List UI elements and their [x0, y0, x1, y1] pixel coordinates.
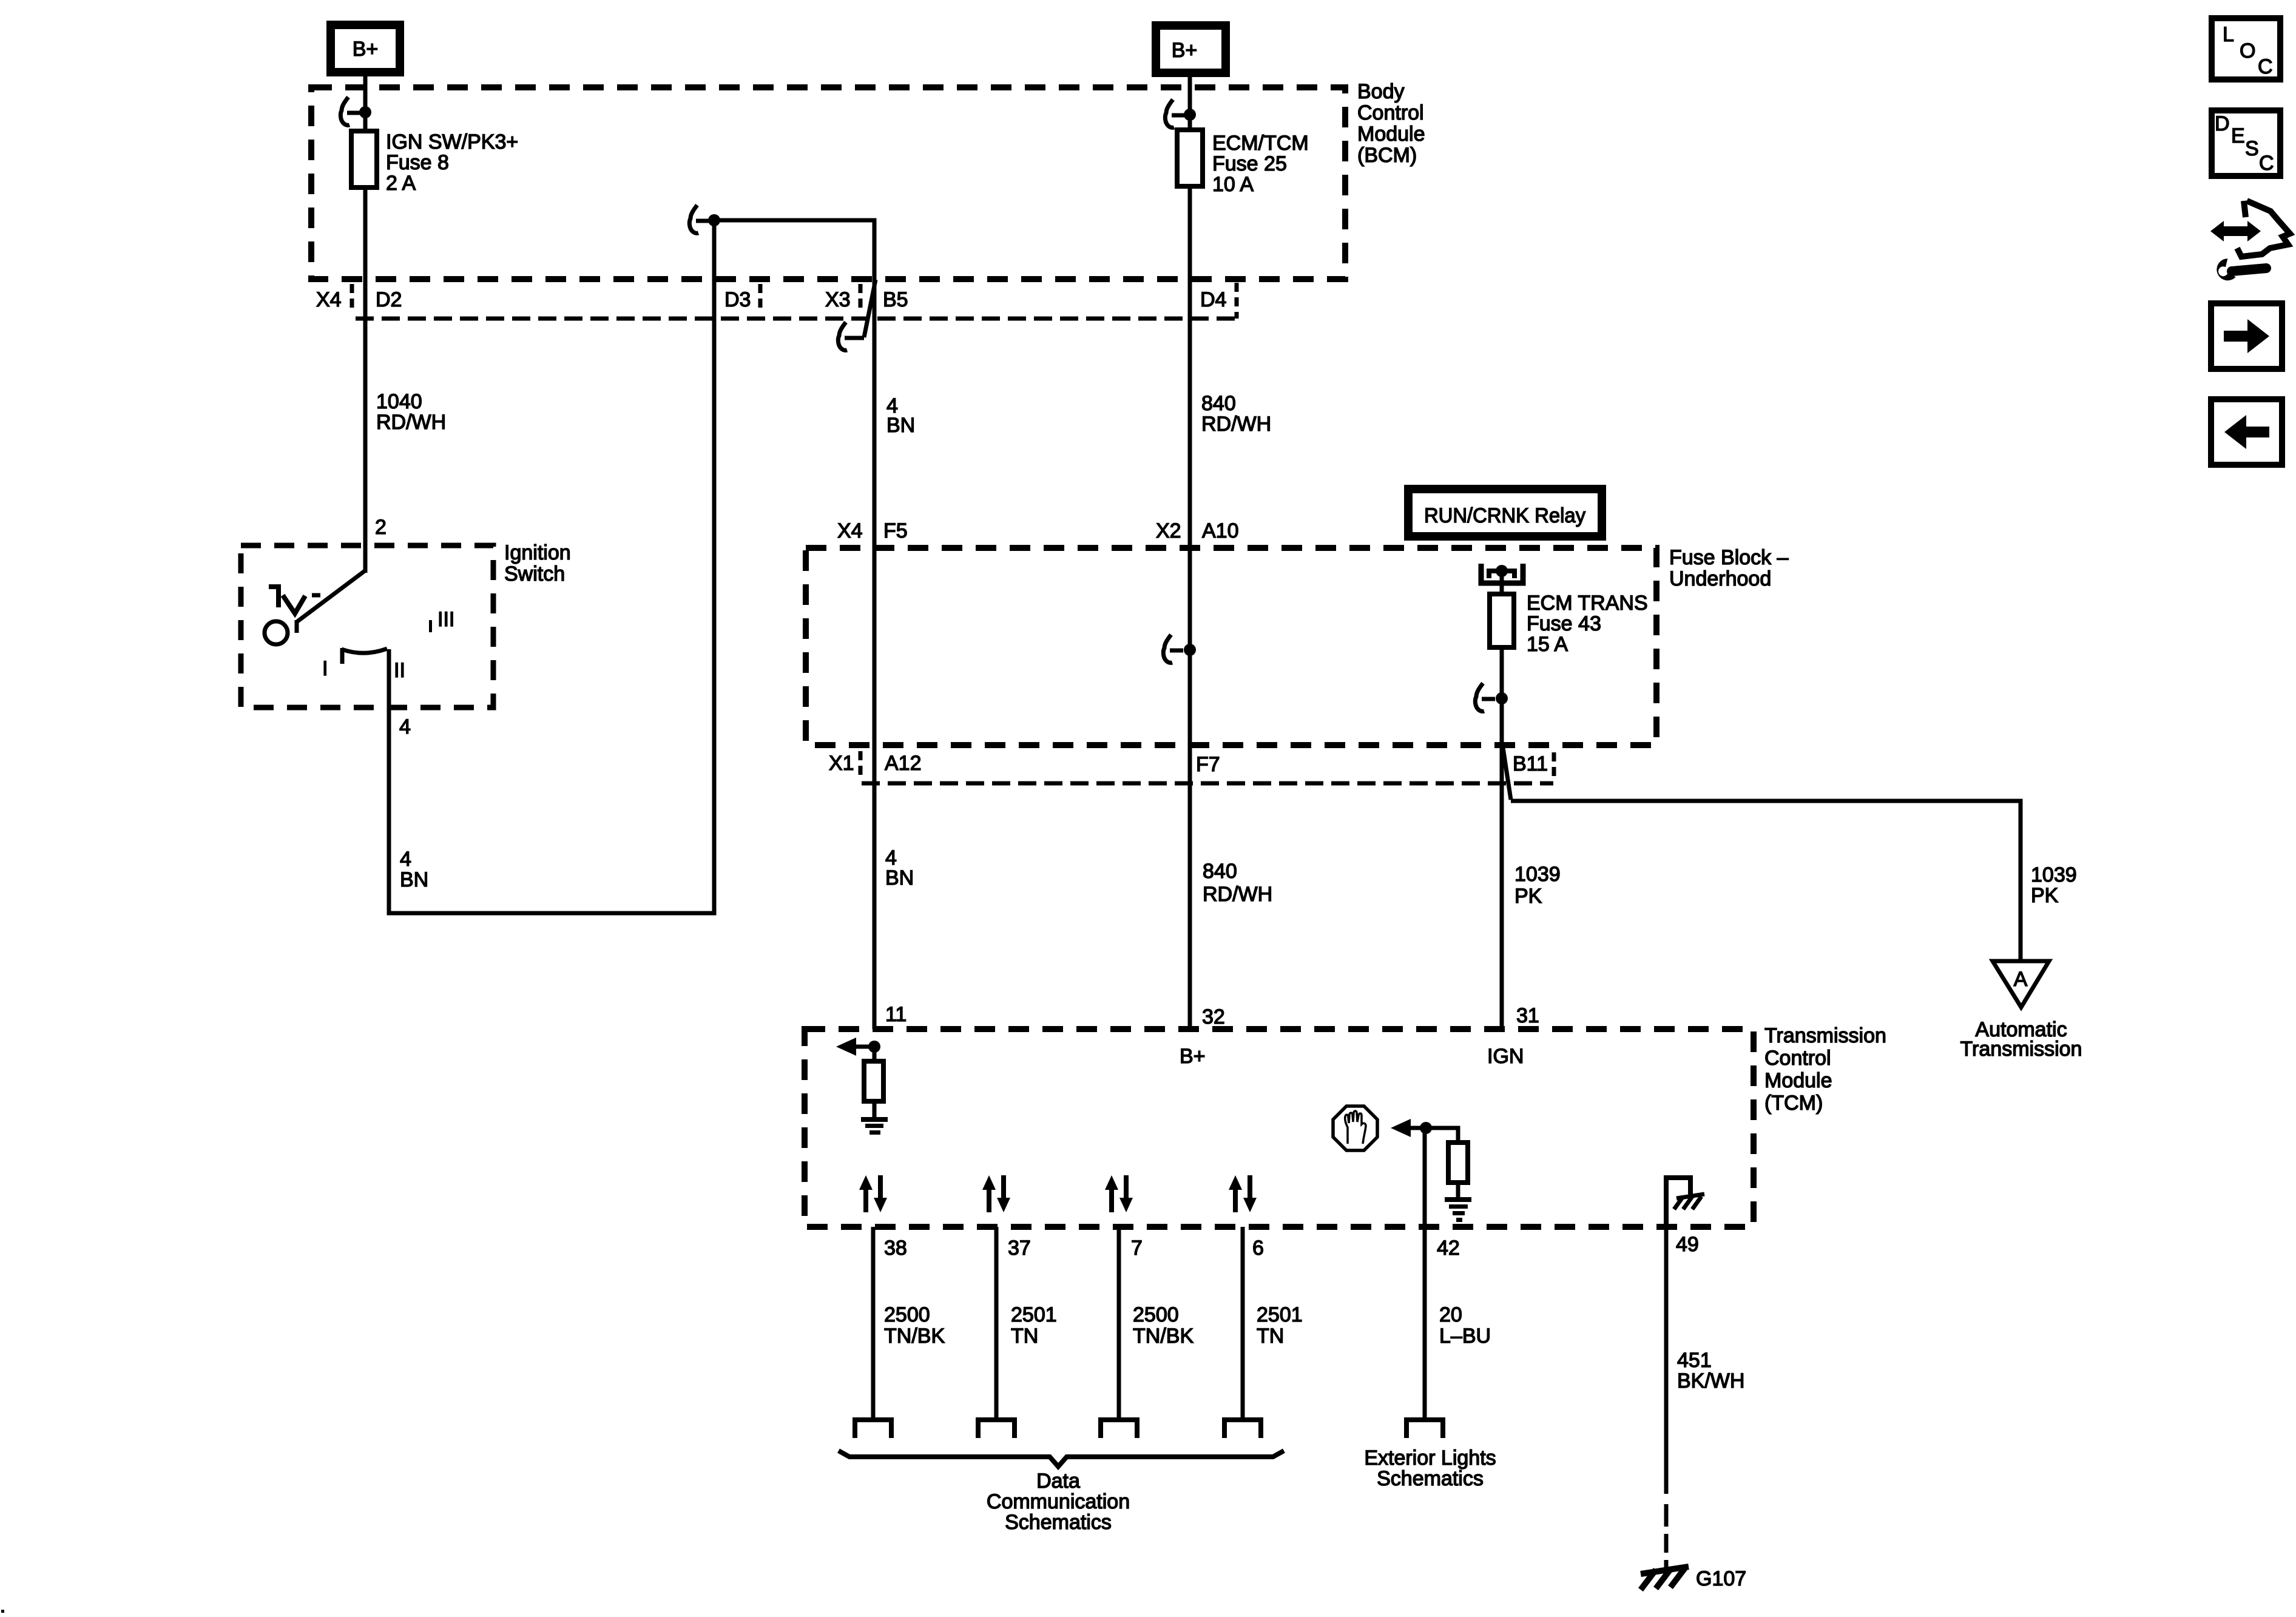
svg-text:F7: F7	[1196, 753, 1220, 776]
svg-text:7: 7	[1131, 1237, 1143, 1260]
svg-text:Ignition: Ignition	[504, 541, 571, 564]
svg-text:15 A: 15 A	[1527, 633, 1568, 656]
svg-text:BK/WH: BK/WH	[1677, 1369, 1744, 1393]
connector cup pin 37	[978, 1420, 1015, 1438]
wire label 2500 TN/BK (pin 38)	[884, 1303, 945, 1348]
fuse F8	[351, 131, 377, 187]
svg-text:L: L	[2223, 23, 2234, 46]
svg-text:Transmission: Transmission	[1764, 1024, 1886, 1047]
svg-text:6: 6	[1252, 1237, 1264, 1260]
ground symbol (TCM pin 42)	[1445, 1197, 1471, 1222]
label fuse 25	[1212, 132, 1309, 196]
svg-text:2501: 2501	[1257, 1303, 1303, 1326]
connector cup pin 38	[855, 1420, 891, 1438]
wire pin 11 to resistor	[873, 1047, 877, 1061]
wire label 20 L-BU	[1439, 1303, 1491, 1348]
svg-text:32: 32	[1202, 1005, 1225, 1028]
connector separator X3	[859, 284, 863, 313]
label Data Communication Schematics	[987, 1470, 1130, 1534]
svg-text:ECM TRANS: ECM TRANS	[1527, 592, 1648, 615]
svg-text:IGN: IGN	[1487, 1045, 1524, 1068]
terminal hook at A10	[1163, 635, 1183, 663]
serial data arrows pin 37	[982, 1175, 1010, 1212]
svg-text:TN/BK: TN/BK	[884, 1325, 945, 1348]
svg-text:Communication: Communication	[987, 1490, 1130, 1513]
wire pin 42 node to resistor	[1426, 1128, 1458, 1143]
connector separator D3	[758, 284, 763, 313]
svg-text:X4: X4	[837, 519, 863, 542]
svg-text:A: A	[2014, 968, 2028, 991]
svg-text:31: 31	[1516, 1004, 1539, 1027]
svg-text:D: D	[2215, 112, 2230, 135]
svg-text:451: 451	[1677, 1349, 1712, 1372]
svg-text:1039: 1039	[1514, 863, 1561, 886]
svg-text:840: 840	[1203, 860, 1237, 883]
svg-text:38: 38	[884, 1237, 907, 1260]
sidebar icon DESC	[2212, 110, 2280, 176]
svg-text:(TCM): (TCM)	[1764, 1092, 1823, 1115]
svg-text:X1: X1	[829, 752, 854, 775]
ignition switch blade	[297, 571, 365, 633]
svg-text:X3: X3	[825, 288, 851, 311]
svg-text:1039: 1039	[2031, 863, 2077, 886]
svg-text:Module: Module	[1764, 1069, 1832, 1092]
svg-text:A10: A10	[1202, 519, 1239, 542]
module box Ignition Switch	[241, 545, 493, 707]
module box BCM (Body Control Module)	[311, 87, 1345, 279]
wire resistor to ground	[873, 1101, 877, 1118]
wire B+ to Fuse 25	[1188, 73, 1192, 130]
fuse F43	[1490, 594, 1514, 647]
TCM pin 11 internal arrow	[836, 1038, 874, 1056]
wire label 4 BN (upper)	[886, 394, 915, 437]
svg-text:Data: Data	[1036, 1470, 1080, 1493]
svg-text:Fuse 43: Fuse 43	[1527, 612, 1601, 635]
svg-text:X2: X2	[1156, 519, 1181, 542]
wire TCM pin 42 (20 L-BU)	[1423, 1128, 1427, 1420]
svg-text:Fuse Block –: Fuse Block –	[1669, 546, 1789, 569]
junction node below fuse 43	[1496, 692, 1508, 704]
in-line connector jog at B5	[838, 280, 876, 350]
svg-text:A12: A12	[885, 752, 922, 775]
wire label 2501 TN (pin 37)	[1011, 1303, 1057, 1348]
connector separator X4/D2	[350, 284, 354, 313]
svg-text:I: I	[322, 657, 328, 680]
serial data arrows pin 38	[859, 1175, 887, 1212]
wire TCM pin 6 (2501 TN)	[1241, 1227, 1245, 1420]
svg-text:C: C	[2258, 55, 2273, 78]
svg-text:IGN SW/PK3+: IGN SW/PK3+	[386, 130, 518, 154]
junction node D3 branch	[708, 214, 720, 226]
svg-text:D3: D3	[724, 288, 751, 311]
wire label 1040 RD/WH	[376, 390, 446, 434]
power symbol B+ (left)	[331, 25, 400, 72]
svg-text:D2: D2	[376, 288, 402, 311]
svg-text:Fuse 8: Fuse 8	[386, 151, 449, 174]
svg-text:Schematics: Schematics	[1005, 1511, 1112, 1534]
wire label 840 RD/WH (upper)	[1201, 392, 1271, 436]
relay callout box RUN/CRNK Relay	[1408, 489, 1602, 536]
sidebar icon LOC	[2212, 18, 2280, 79]
label Exterior Lights Schematics	[1364, 1447, 1496, 1490]
wire TCM pin 38 (2500 TN/BK)	[871, 1227, 876, 1420]
connector separator B11	[1552, 752, 1556, 780]
svg-text:ECM/TCM: ECM/TCM	[1212, 132, 1309, 155]
junction node pin 42	[1420, 1122, 1432, 1134]
wire label 1039 PK (right)	[2031, 863, 2077, 907]
ignition switch output arc	[342, 648, 387, 664]
svg-text:B+: B+	[353, 38, 379, 61]
relay contact cup	[1481, 564, 1523, 583]
wire label 2501 TN (pin 6)	[1257, 1303, 1303, 1348]
wire branch D3 to B5	[714, 220, 874, 1029]
fuse F25	[1177, 130, 1203, 186]
position mark III	[429, 608, 454, 632]
resistor (TCM pin 42 pull-up)	[1448, 1143, 1468, 1183]
svg-text:PK: PK	[2031, 884, 2059, 907]
connector separator X1	[859, 751, 863, 780]
ignition switch lock bracket	[269, 587, 320, 613]
wire relay cup to fuse 43	[1500, 571, 1504, 594]
svg-text:BN: BN	[885, 866, 914, 890]
label Automatic Transmission	[1960, 1018, 2082, 1061]
ground symbol (TCM pin 11)	[861, 1117, 888, 1135]
svg-text:O: O	[2240, 39, 2255, 62]
svg-text:X4: X4	[316, 288, 342, 311]
junction node at fuse 8	[359, 106, 371, 118]
TCM pin 49 internal chassis ground	[1666, 1178, 1704, 1227]
brace for data communication wires	[839, 1451, 1284, 1467]
off-page connector triangle A	[1993, 961, 2049, 1007]
terminal hook at fuse 8	[340, 97, 360, 125]
terminal hook at BCM D3 branch	[689, 205, 709, 233]
wire TCM pin 49 (451 BK/WH)	[1664, 1227, 1669, 1494]
svg-text:Body: Body	[1357, 80, 1405, 103]
svg-text:Control: Control	[1357, 101, 1424, 124]
connector cup pin 42	[1406, 1420, 1443, 1438]
module box TCM (Transmission Control Module)	[805, 1029, 1754, 1227]
terminal hook at fuse 25	[1165, 100, 1185, 127]
svg-text:D4: D4	[1200, 288, 1226, 311]
svg-text:11: 11	[885, 1003, 907, 1026]
power symbol B+ (right)	[1156, 25, 1226, 73]
ignition switch OFF circle	[265, 621, 288, 644]
svg-text:Underhood: Underhood	[1669, 567, 1771, 590]
svg-text:Schematics: Schematics	[1377, 1467, 1484, 1490]
label Transmission Control Module (TCM)	[1764, 1024, 1886, 1115]
svg-text:2501: 2501	[1011, 1303, 1057, 1326]
svg-text:B5: B5	[883, 288, 908, 311]
dashed wire to G107	[1664, 1504, 1669, 1570]
svg-text:BN: BN	[886, 414, 915, 437]
svg-text:4: 4	[399, 715, 411, 738]
svg-text:37: 37	[1008, 1237, 1031, 1260]
svg-text:Switch: Switch	[504, 562, 565, 586]
junction node pin 11	[868, 1041, 880, 1053]
sidebar icon back arrow	[2211, 399, 2282, 465]
svg-text:2: 2	[375, 516, 387, 539]
wire TCM pin 37 (2501 TN)	[994, 1227, 999, 1420]
svg-text:III: III	[437, 608, 454, 631]
svg-text:TN/BK: TN/BK	[1133, 1325, 1194, 1348]
svg-text:20: 20	[1439, 1303, 1462, 1326]
wire label 2500 TN/BK (pin 7)	[1133, 1303, 1194, 1348]
wire branch B11 to automatic transmission	[1511, 801, 2021, 961]
svg-text:F5: F5	[883, 519, 908, 542]
svg-text:RD/WH: RD/WH	[1201, 413, 1271, 436]
svg-text:Module: Module	[1357, 123, 1425, 146]
label Body Control Module (BCM)	[1357, 80, 1425, 167]
svg-text:42: 42	[1437, 1237, 1460, 1260]
wire fuse 8 to ignition switch	[363, 187, 368, 573]
svg-text:B11: B11	[1513, 752, 1548, 775]
svg-text:RUN/CRNK Relay: RUN/CRNK Relay	[1424, 504, 1585, 527]
svg-text:TN: TN	[1257, 1325, 1284, 1348]
wire ignition pin 4 to BCM D3 (4 BN)	[389, 220, 714, 913]
svg-text:4: 4	[400, 848, 411, 871]
wire label 451 BK/WH	[1677, 1349, 1744, 1393]
svg-text:PK: PK	[1514, 885, 1542, 908]
module box Fuse Block - Underhood	[806, 548, 1656, 745]
svg-text:RD/WH: RD/WH	[1203, 883, 1272, 906]
junction node A10	[1184, 644, 1196, 656]
stop hand octagon icon	[1333, 1106, 1377, 1150]
svg-text:B+: B+	[1180, 1045, 1206, 1068]
connector cup pin 6	[1224, 1420, 1261, 1438]
resistor (TCM pin 11 pull-up)	[864, 1061, 883, 1101]
ground G107	[1641, 1567, 1689, 1590]
connector separator D4	[1235, 283, 1239, 319]
svg-text:L–BU: L–BU	[1439, 1325, 1491, 1348]
terminal hook below fuse 43	[1475, 683, 1495, 711]
serial data arrows pin 7	[1105, 1175, 1133, 1212]
svg-text:Exterior Lights: Exterior Lights	[1364, 1447, 1496, 1470]
BCM connector row lower dashed line	[356, 317, 1235, 321]
in-line connector jog at B11	[1503, 748, 1511, 800]
wire B+ to Fuse 8	[363, 72, 368, 131]
label Ignition Switch	[504, 541, 571, 586]
TCM pin 42 internal arrow	[1391, 1119, 1426, 1137]
svg-text:G107: G107	[1696, 1567, 1746, 1590]
svg-text:TN: TN	[1011, 1325, 1038, 1348]
wire label 4 BN (ignition)	[400, 848, 428, 891]
wire fuse 25 to TCM pin 32 (840 RD/WH)	[1188, 186, 1192, 1029]
svg-text:Fuse 25: Fuse 25	[1212, 152, 1287, 175]
serial data arrows pin 6	[1229, 1175, 1257, 1212]
svg-text:E: E	[2231, 124, 2245, 147]
svg-text:B+: B+	[1172, 39, 1198, 62]
junction node relay cup	[1496, 565, 1508, 577]
label fuse 43	[1527, 592, 1648, 656]
svg-text:Control: Control	[1764, 1047, 1831, 1070]
svg-text:II: II	[394, 659, 405, 682]
svg-text:10 A: 10 A	[1212, 173, 1254, 196]
wire label 4 BN (lower)	[885, 846, 914, 890]
sidebar icon wiring repair (arrow, connector, wrench)	[2210, 201, 2290, 283]
svg-text:S: S	[2245, 137, 2259, 160]
svg-text:2500: 2500	[884, 1303, 930, 1326]
svg-text:RD/WH: RD/WH	[376, 411, 446, 434]
wire label 840 RD/WH (lower)	[1203, 860, 1272, 906]
svg-text:1040: 1040	[376, 390, 422, 413]
label fuse 8	[386, 130, 518, 195]
label Fuse Block - Underhood	[1669, 546, 1789, 590]
page corner mark	[1, 1610, 4, 1613]
connector cup pin 7	[1101, 1420, 1137, 1438]
svg-text:2500: 2500	[1133, 1303, 1179, 1326]
svg-text:C: C	[2259, 152, 2274, 175]
fuse block lower connector dashed line	[862, 781, 1553, 786]
wire fuse 43 to TCM pin 31 (1039 PK)	[1500, 647, 1504, 1029]
svg-text:Transmission: Transmission	[1960, 1038, 2082, 1061]
wire resistor to ground (pin 42)	[1456, 1183, 1460, 1198]
junction node at fuse 25	[1184, 109, 1196, 121]
wire label 1039 PK (left)	[1514, 863, 1561, 908]
svg-text:2 A: 2 A	[386, 172, 416, 195]
sidebar icon forward arrow	[2211, 303, 2282, 369]
svg-text:(BCM): (BCM)	[1357, 144, 1417, 167]
svg-text:49: 49	[1676, 1233, 1699, 1256]
wire TCM pin 7 (2500 TN/BK)	[1117, 1227, 1121, 1420]
svg-text:BN: BN	[400, 868, 428, 891]
svg-text:840: 840	[1201, 392, 1236, 415]
